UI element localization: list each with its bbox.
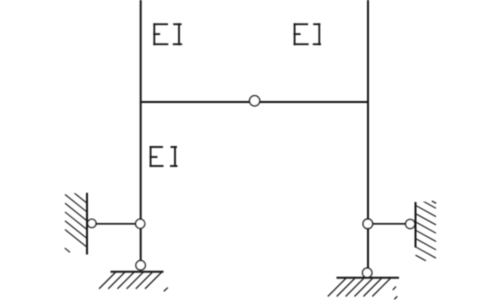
label EI (top left, beam stiffness) [153,23,182,45]
right link pin at column [363,219,373,229]
left ground hatching [99,272,168,291]
left wall hatching [65,186,87,253]
left link pin at wall [88,219,96,227]
hinge at beam midspan [250,96,260,106]
right link pin at wall [406,219,415,228]
right wall hatching top fleck [432,201,436,203]
beam (member EI) [141,101,368,103]
right base pin circle [363,268,372,277]
label EJ (top right, column stiffness) [294,23,321,45]
right column (member EJ) [367,0,369,268]
left wall line [86,193,88,255]
left base pin circle [136,261,145,270]
left ground line [111,271,164,273]
right ground line [337,277,400,279]
right wall hatching [416,197,437,261]
label EI (left column stiffness) [150,146,178,167]
right wall line [415,202,417,248]
left link pin at column [136,219,145,228]
right support link [368,223,416,225]
left support link [87,223,141,225]
left column (member EI) [140,0,142,261]
right ground hatching [328,278,398,299]
